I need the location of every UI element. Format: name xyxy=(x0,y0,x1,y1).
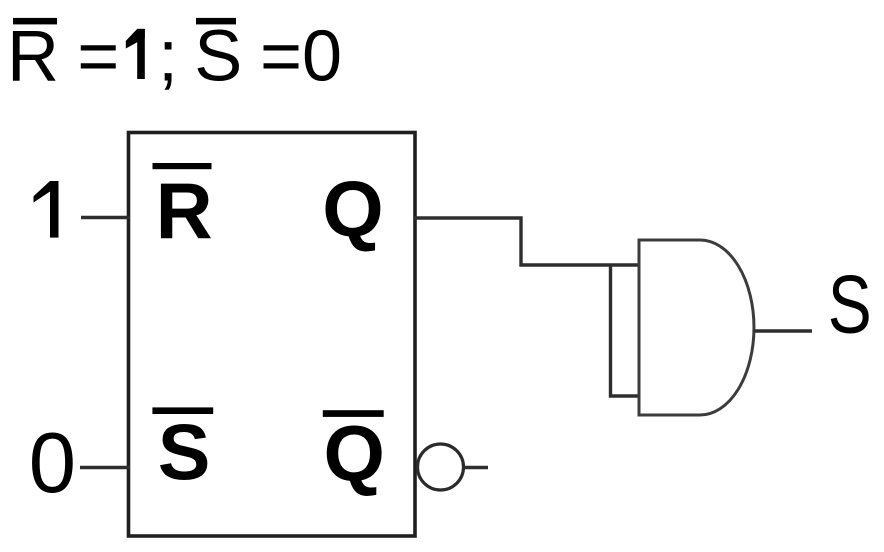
annotation digit 1 xyxy=(126,29,145,79)
wire: Q output to AND gate upper input xyxy=(414,218,639,265)
svg-text:S: S xyxy=(158,407,211,496)
svg-text:;: ; xyxy=(158,17,178,97)
wire: input 1 to latch Rbar pin xyxy=(81,216,130,219)
wire: input 0 to latch Sbar pin xyxy=(80,466,130,469)
inverter bubble on Qbar output xyxy=(418,444,464,490)
svg-text:Q: Q xyxy=(324,409,385,498)
overbar on annotation S xyxy=(196,18,236,25)
latch U1 body xyxy=(129,133,416,537)
svg-text:R: R xyxy=(7,17,59,97)
wire: branch down to AND gate lower input xyxy=(611,265,640,396)
wire: AND gate output xyxy=(754,329,812,332)
overbar on annotation R xyxy=(13,18,57,25)
svg-text:S: S xyxy=(194,17,242,97)
pin label Qbar (overbar) xyxy=(323,410,384,417)
pin label Rbar (overbar) xyxy=(153,163,212,169)
svg-text:Q: Q xyxy=(322,164,383,253)
svg-text:S: S xyxy=(828,257,872,350)
input value 1 on Rbar xyxy=(34,181,59,238)
AND gate U2 body xyxy=(639,240,754,415)
svg-text:=0: =0 xyxy=(260,17,342,97)
svg-text:R: R xyxy=(156,166,213,255)
svg-text:0: 0 xyxy=(29,416,76,511)
svg-text:=: = xyxy=(77,17,119,97)
wire: Qbar output stub xyxy=(464,466,488,469)
pin label Sbar (overbar) xyxy=(152,407,213,414)
